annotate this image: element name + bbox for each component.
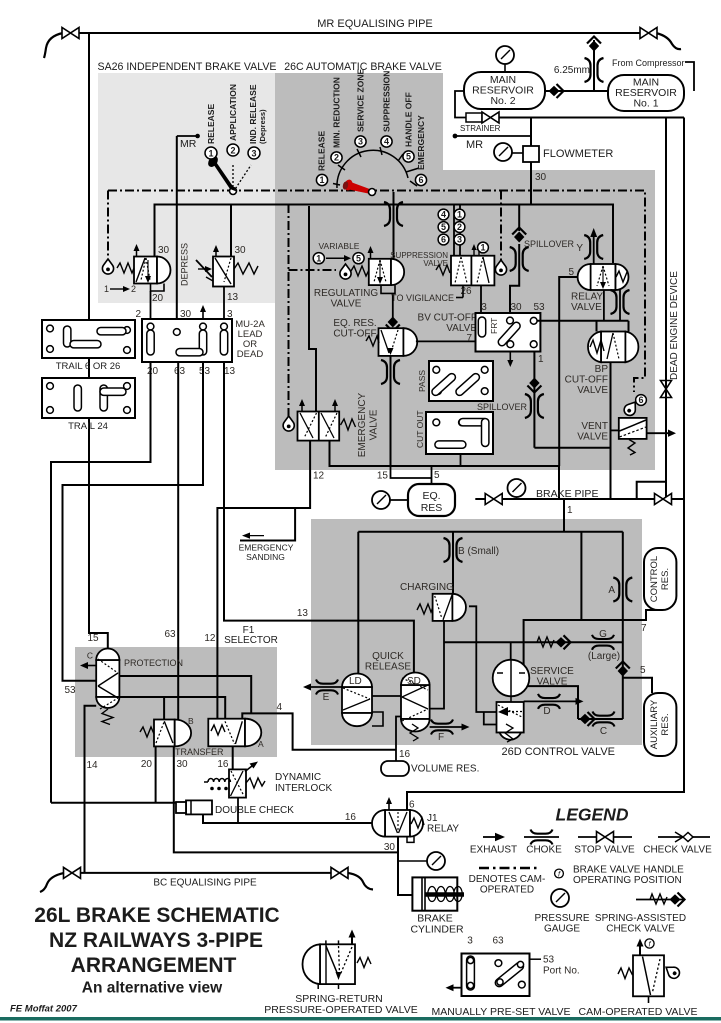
depress cam lever	[196, 260, 212, 277]
LD valve	[342, 674, 372, 727]
wire suppression port3 drop	[480, 285, 482, 317]
charging valve	[417, 594, 466, 621]
svg-text:13: 13	[224, 366, 236, 377]
wire SA26 valve2 drop	[230, 205, 232, 257]
svg-text:QUICK: QUICK	[372, 651, 404, 662]
svg-text:EQ. RES.: EQ. RES.	[333, 318, 376, 329]
svg-text:VALVE: VALVE	[423, 259, 448, 268]
wire MR stub SA26	[177, 135, 198, 137]
flowmeter box	[523, 146, 539, 162]
svg-text:5: 5	[568, 267, 574, 278]
svg-text:RELAY: RELAY	[427, 824, 459, 835]
suppression valve body	[436, 244, 494, 285]
svg-text:30: 30	[158, 245, 170, 256]
svg-text:PRESSURE-OPERATED VALVE: PRESSURE-OPERATED VALVE	[264, 1004, 417, 1016]
wire A line right	[622, 532, 624, 719]
svg-text:CHECK VALVE: CHECK VALVE	[606, 924, 675, 935]
stop valve top-right	[640, 28, 657, 39]
legend cam line	[479, 867, 538, 869]
svg-text:TRANSFER: TRANSFER	[175, 747, 224, 757]
wire inner box bottom	[330, 441, 560, 499]
svg-text:1: 1	[316, 253, 321, 263]
SA26 handle pivot	[230, 188, 237, 195]
choke C	[593, 712, 615, 727]
arrow up valve2	[215, 249, 217, 256]
choke spillover upper	[510, 247, 529, 271]
svg-text:(Depress): (Depress)	[258, 109, 267, 144]
hose top-right	[656, 33, 681, 49]
svg-text:DENOTES CAM-: DENOTES CAM-	[469, 874, 546, 885]
svg-text:VALVE: VALVE	[577, 432, 608, 443]
svg-text:An alternative view: An alternative view	[82, 980, 223, 997]
legend spring return pressure operated valve	[302, 930, 371, 990]
arrow left protection	[84, 665, 96, 667]
svg-text:GAUGE: GAUGE	[544, 924, 580, 935]
wire G line	[444, 641, 623, 643]
svg-text:30: 30	[384, 842, 396, 853]
wire protection out2 to valves B A	[119, 697, 225, 719]
svg-text:5: 5	[356, 253, 361, 263]
TRAIL 6 OR 26 preset box	[42, 320, 135, 358]
choke D exhaust	[524, 700, 579, 702]
wire BV port1 down	[533, 352, 535, 448]
svg-text:7: 7	[641, 623, 647, 634]
svg-text:CHARGING: CHARGING	[400, 582, 454, 593]
svg-text:No. 2: No. 2	[490, 95, 515, 107]
svg-text:DYNAMIC: DYNAMIC	[275, 772, 321, 783]
svg-text:EXHAUST: EXHAUST	[470, 845, 517, 856]
wire valve B feed	[163, 697, 165, 720]
svg-text:Y: Y	[576, 243, 583, 254]
svg-text:MIN. REDUCTION: MIN. REDUCTION	[332, 77, 342, 148]
wire 53 line to BP cutoff	[537, 320, 629, 322]
svg-text:2: 2	[135, 309, 141, 320]
dash-dot variable branch	[289, 269, 337, 271]
svg-text:FLOWMETER: FLOWMETER	[543, 148, 613, 160]
svg-text:CUT OUT: CUT OUT	[415, 410, 425, 448]
svg-text:VALVE: VALVE	[571, 302, 602, 313]
spring assisted check on G line	[537, 637, 554, 647]
dynamic interlock spring	[246, 778, 265, 788]
main reservoir no1	[608, 75, 684, 111]
suppression valve feed lines	[453, 205, 455, 257]
wire dead engine line	[665, 118, 667, 500]
svg-text:No. 1: No. 1	[633, 98, 658, 110]
EQ RES reservoir	[408, 484, 455, 516]
wire LD-SD link	[372, 695, 401, 697]
svg-text:VENT: VENT	[581, 421, 608, 432]
svg-text:VARIABLE: VARIABLE	[319, 241, 360, 251]
wire port5 relay jog long	[559, 277, 577, 466]
protection valve	[96, 649, 119, 710]
svg-text:DOUBLE CHECK: DOUBLE CHECK	[215, 805, 294, 816]
svg-text:30: 30	[235, 245, 247, 256]
svg-text:5: 5	[441, 222, 446, 232]
wire 30 drop to J1	[174, 746, 398, 852]
wire emergency feed jog	[309, 206, 316, 412]
svg-text:CHECK VALVE: CHECK VALVE	[643, 845, 712, 856]
svg-text:RES.: RES.	[660, 713, 671, 735]
control reservoir	[644, 548, 676, 610]
svg-text:REGULATING: REGULATING	[314, 288, 378, 299]
variable position 5	[353, 253, 364, 264]
svg-text:6: 6	[638, 395, 643, 405]
svg-text:C: C	[600, 726, 607, 737]
svg-text:SPRING-ASSISTED: SPRING-ASSISTED	[595, 913, 686, 924]
wire 15 drop from eq res cutoff	[390, 356, 392, 466]
brake pipe	[475, 498, 684, 500]
wire charging bottom to SD	[426, 621, 444, 709]
wire port13 drop	[223, 287, 225, 320]
svg-text:13: 13	[227, 292, 239, 303]
SA26 independent valve left	[102, 244, 170, 319]
wire eq res cutoff to BV port7	[416, 340, 476, 342]
wire reservoir link	[545, 90, 608, 92]
svg-text:AUXILIARY: AUXILIARY	[649, 699, 660, 749]
wire vent out arrow	[647, 432, 671, 434]
BP cutoff valve	[588, 332, 638, 363]
svg-text:NZ RAILWAYS 3-PIPE: NZ RAILWAYS 3-PIPE	[49, 929, 263, 952]
svg-text:7: 7	[466, 333, 472, 344]
svg-text:26D CONTROL VALVE: 26D CONTROL VALVE	[502, 746, 616, 758]
svg-text:B: B	[188, 716, 194, 726]
wire SD to volume res	[396, 717, 401, 762]
svg-text:30: 30	[510, 302, 522, 313]
auxiliary reservoir	[644, 693, 676, 756]
svg-text:DEAD ENGINE DEVICE: DEAD ENGINE DEVICE	[669, 271, 680, 380]
svg-text:SERVICE ZONE: SERVICE ZONE	[356, 69, 366, 132]
choke E exhaust	[307, 686, 342, 688]
svg-text:5: 5	[640, 665, 646, 676]
wire vent in	[611, 429, 619, 431]
svg-text:4: 4	[441, 210, 446, 220]
svg-text:15: 15	[377, 471, 389, 482]
svg-text:MR: MR	[180, 138, 197, 150]
wire 16 drop to dynamic interlock	[232, 746, 234, 769]
hose top-left	[44, 33, 63, 58]
svg-text:SUPPRESSION: SUPPRESSION	[382, 71, 392, 132]
relay arrow up and Y choke	[593, 234, 595, 264]
svg-text:3: 3	[251, 149, 256, 159]
stop valve brake pipe left	[485, 494, 502, 505]
check diamond on A line	[616, 662, 630, 677]
svg-text:15: 15	[87, 633, 99, 644]
main reservoir no2	[464, 72, 545, 109]
svg-text:G: G	[599, 629, 607, 640]
vent valve	[619, 418, 647, 439]
wire C line	[578, 718, 623, 720]
svg-text:RELEASE: RELEASE	[206, 104, 216, 144]
variable position 1	[313, 253, 324, 264]
svg-text:TRAIL 6 OR 26: TRAIL 6 OR 26	[56, 361, 121, 372]
svg-text:1: 1	[104, 284, 109, 294]
svg-text:E: E	[323, 692, 330, 703]
svg-text:(Large): (Large)	[588, 651, 620, 662]
panel SA26 light gray	[98, 73, 275, 303]
wire emergency sanding	[240, 509, 295, 541]
svg-text:CONTROL: CONTROL	[649, 556, 660, 602]
panel 26D control valve	[311, 519, 642, 745]
relay drop with choke	[619, 290, 621, 321]
service valve lower box	[510, 696, 512, 702]
svg-text:5: 5	[406, 152, 411, 162]
svg-text:CYLINDER: CYLINDER	[410, 924, 464, 936]
svg-text:TO VIGILANCE: TO VIGILANCE	[391, 293, 454, 303]
svg-text:26L BRAKE SCHEMATIC: 26L BRAKE SCHEMATIC	[34, 904, 279, 927]
svg-text:ARRANGEMENT: ARRANGEMENT	[71, 954, 237, 977]
svg-text:PASS: PASS	[417, 370, 427, 392]
svg-text:53: 53	[199, 366, 211, 377]
J1 relay valve	[372, 810, 424, 837]
svg-text:LEGEND: LEGEND	[556, 805, 629, 825]
stop valve top-left	[62, 28, 79, 39]
svg-text:OPERATED: OPERATED	[480, 885, 534, 896]
svg-text:2: 2	[230, 146, 235, 156]
26C position labels rotated	[317, 69, 427, 171]
svg-text:4: 4	[384, 137, 389, 147]
dynamic interlock valve	[229, 769, 246, 797]
svg-text:CHOKE: CHOKE	[526, 845, 562, 856]
svg-text:EMERGENCY: EMERGENCY	[239, 543, 294, 553]
wire 15 to 5 drop	[391, 466, 432, 478]
position 3 circle	[248, 147, 260, 159]
svg-text:RES: RES	[421, 502, 443, 514]
wire cutout drop	[460, 454, 462, 466]
svg-text:DEPRESS: DEPRESS	[180, 243, 190, 286]
wire port2 drop	[150, 291, 152, 319]
exhaust arrow below BV	[509, 352, 511, 363]
svg-text:63: 63	[164, 629, 176, 640]
SD valve	[401, 673, 430, 741]
svg-text:BV CUT-OFF: BV CUT-OFF	[418, 313, 477, 324]
choke A	[613, 578, 632, 602]
gauge brake cylinder	[398, 860, 428, 862]
legend exhaust	[483, 836, 498, 838]
dynamic interlock coil	[204, 779, 230, 783]
wire right edge vertical	[407, 118, 684, 811]
svg-text:6: 6	[441, 235, 446, 245]
legend spring assisted check	[636, 899, 685, 901]
volume reservoir	[381, 761, 409, 776]
wire port20 down-left-down	[51, 362, 151, 803]
wire MR stub	[455, 135, 531, 137]
wire strainer line to right	[499, 117, 684, 119]
legend check valve	[658, 836, 710, 838]
wire dead engine down	[637, 118, 666, 500]
svg-text:2: 2	[131, 284, 136, 294]
svg-text:TRAIL 24: TRAIL 24	[68, 421, 108, 432]
svg-text:FRT: FRT	[489, 318, 499, 334]
svg-text:1: 1	[319, 175, 324, 185]
dynamic interlock arrow	[245, 764, 255, 772]
svg-text:VALVE: VALVE	[537, 677, 568, 688]
wire to vigilance	[462, 285, 464, 297]
wire spillover lower horizontal	[534, 447, 611, 449]
dash-dot 26C left drop	[288, 204, 290, 416]
svg-text:F: F	[438, 732, 444, 743]
svg-text:LD: LD	[349, 676, 362, 687]
svg-text:SELECTOR: SELECTOR	[224, 635, 278, 646]
svg-text:53: 53	[543, 955, 555, 966]
svg-text:SERVICE: SERVICE	[530, 666, 574, 677]
MU-2A preset valve box	[142, 319, 232, 362]
svg-text:A: A	[258, 739, 264, 749]
svg-text:INTERLOCK: INTERLOCK	[275, 783, 333, 794]
panel 26C dark gray	[275, 73, 443, 470]
svg-text:CUT-OFF: CUT-OFF	[565, 375, 608, 386]
svg-text:EMERGENCY: EMERGENCY	[357, 392, 368, 457]
svg-text:1: 1	[480, 243, 485, 253]
svg-text:SA26 INDEPENDENT BRAKE VALVE: SA26 INDEPENDENT BRAKE VALVE	[98, 61, 277, 73]
spillover check diamond	[512, 228, 526, 243]
arrow up exhaust MU-2A	[202, 310, 204, 318]
wire dynamic interlock drop	[237, 798, 239, 823]
spring SA26 valve1	[117, 263, 134, 273]
svg-text:4: 4	[276, 702, 282, 713]
svg-text:12: 12	[204, 633, 216, 644]
stop valve brake pipe right	[655, 494, 672, 505]
26C red handle	[348, 181, 373, 195]
svg-text:MR: MR	[466, 139, 483, 151]
svg-text:VALVE: VALVE	[331, 299, 362, 310]
wire brake pipe into 26D	[563, 499, 565, 519]
wire regulating feed with choke	[393, 192, 395, 259]
TRAIL 24 preset box	[42, 378, 135, 418]
svg-text:BP: BP	[595, 364, 609, 375]
svg-text:63: 63	[492, 936, 504, 947]
transfer valve A	[208, 719, 261, 747]
choke G	[592, 635, 614, 650]
eq res cutoff valve	[366, 328, 417, 356]
emergency valve	[298, 399, 356, 441]
gauge eq res	[372, 491, 390, 509]
svg-text:6: 6	[418, 175, 423, 185]
svg-text:SD: SD	[407, 676, 421, 687]
legend handle position	[555, 869, 564, 878]
hose BC right	[348, 873, 373, 890]
svg-text:BRAKE VALVE HANDLE: BRAKE VALVE HANDLE	[573, 865, 684, 876]
svg-text:VALVE: VALVE	[369, 409, 380, 440]
wire charging out to service	[469, 606, 497, 712]
svg-text:16: 16	[399, 749, 411, 760]
svg-text:EMERGENCY: EMERGENCY	[416, 115, 426, 170]
svg-text:3: 3	[457, 235, 462, 245]
svg-text:CAM-OPERATED VALVE: CAM-OPERATED VALVE	[578, 1006, 697, 1018]
svg-text:3: 3	[481, 302, 487, 313]
26C handle pivot	[369, 189, 376, 196]
SA26 independent valve right	[180, 243, 259, 319]
regulating foot and drop	[381, 285, 395, 293]
svg-text:SPILLOVER: SPILLOVER	[524, 239, 575, 249]
SA26 handle black	[210, 159, 237, 192]
choke on 15 drop	[381, 360, 400, 384]
legend stop valve	[578, 836, 632, 838]
choke 6.25mm	[585, 58, 604, 82]
spring protection	[102, 709, 113, 725]
26C position circles	[316, 136, 426, 186]
svg-text:12: 12	[313, 471, 325, 482]
transfer valve B	[140, 720, 191, 747]
exhaust diamond SA26 valve1	[102, 259, 113, 274]
svg-text:16: 16	[217, 759, 229, 770]
svg-text:APPLICATION: APPLICATION	[228, 84, 238, 141]
port 20 step	[151, 284, 165, 292]
svg-text:Port No.: Port No.	[543, 966, 580, 977]
choke F exhaust	[430, 726, 465, 728]
svg-text:SPILLOVER: SPILLOVER	[477, 402, 528, 412]
svg-text:20: 20	[152, 293, 164, 304]
svg-text:6.25mm: 6.25mm	[554, 65, 590, 76]
svg-text:RELEASE: RELEASE	[365, 662, 411, 673]
gauge above reservoir no2	[504, 63, 506, 72]
svg-text:A: A	[608, 585, 615, 596]
J1 foot	[407, 837, 414, 843]
wire J1 down to brake cylinder	[398, 837, 412, 895]
svg-text:53: 53	[64, 685, 76, 696]
stop valve after strainer	[482, 112, 499, 123]
wire protection out1 to valve A	[119, 676, 251, 713]
svg-text:BRAKE PIPE: BRAKE PIPE	[536, 488, 598, 500]
svg-text:20: 20	[141, 759, 153, 770]
CUT OUT preset box	[426, 412, 493, 454]
svg-text:2: 2	[457, 222, 462, 232]
wire 51 line to double check	[51, 802, 186, 804]
wire port53 down-left-down	[63, 362, 204, 681]
check diamond between reservoirs	[549, 84, 564, 98]
spring regulating	[351, 266, 369, 276]
J1 arrow up	[388, 801, 390, 810]
vent valve cam teardrop	[622, 399, 640, 418]
svg-text:OPERATING POSITION: OPERATING POSITION	[573, 875, 682, 886]
double check valve	[186, 800, 212, 814]
wire 26D top manifold	[358, 531, 623, 533]
position 1 circle	[205, 147, 217, 159]
svg-text:D: D	[543, 706, 550, 717]
wire 5 to eq res	[431, 466, 433, 484]
svg-text:RES.: RES.	[660, 568, 671, 590]
wire 1 into panel	[563, 519, 565, 532]
svg-text:BC EQUALISING PIPE: BC EQUALISING PIPE	[153, 878, 257, 889]
wire port63 down	[177, 362, 179, 720]
spring valve2 right	[234, 263, 258, 274]
strainer box	[466, 113, 482, 122]
exhaust teardrop suppression	[495, 260, 506, 275]
wire service feed	[510, 642, 512, 660]
bottom teal rule	[0, 1017, 721, 1021]
brake cylinder	[412, 877, 464, 910]
legend pressure gauge	[551, 889, 569, 907]
svg-text:14: 14	[87, 760, 99, 771]
svg-text:B (Small): B (Small)	[458, 546, 499, 557]
arrow up on valve1	[136, 248, 138, 256]
wire BP cutoff main drop	[610, 362, 612, 499]
service valve circle	[493, 660, 530, 697]
svg-text:RELEASE: RELEASE	[317, 131, 327, 171]
svg-text:VALVE: VALVE	[446, 323, 477, 334]
vent valve cam circle 6	[636, 395, 647, 406]
svg-text:RELAY: RELAY	[571, 292, 603, 303]
PASS preset box	[429, 361, 493, 401]
svg-text:STRAINER: STRAINER	[460, 124, 501, 133]
26C handle arc	[333, 147, 419, 188]
svg-text:J1: J1	[427, 813, 438, 824]
wire left main vertical from MR pipe	[89, 33, 108, 649]
regulating valve	[368, 246, 405, 285]
wire double check out to J1	[203, 814, 372, 823]
panel F1 selector	[75, 647, 277, 757]
choke on regulating feed	[384, 202, 403, 226]
svg-text:2: 2	[334, 153, 339, 163]
